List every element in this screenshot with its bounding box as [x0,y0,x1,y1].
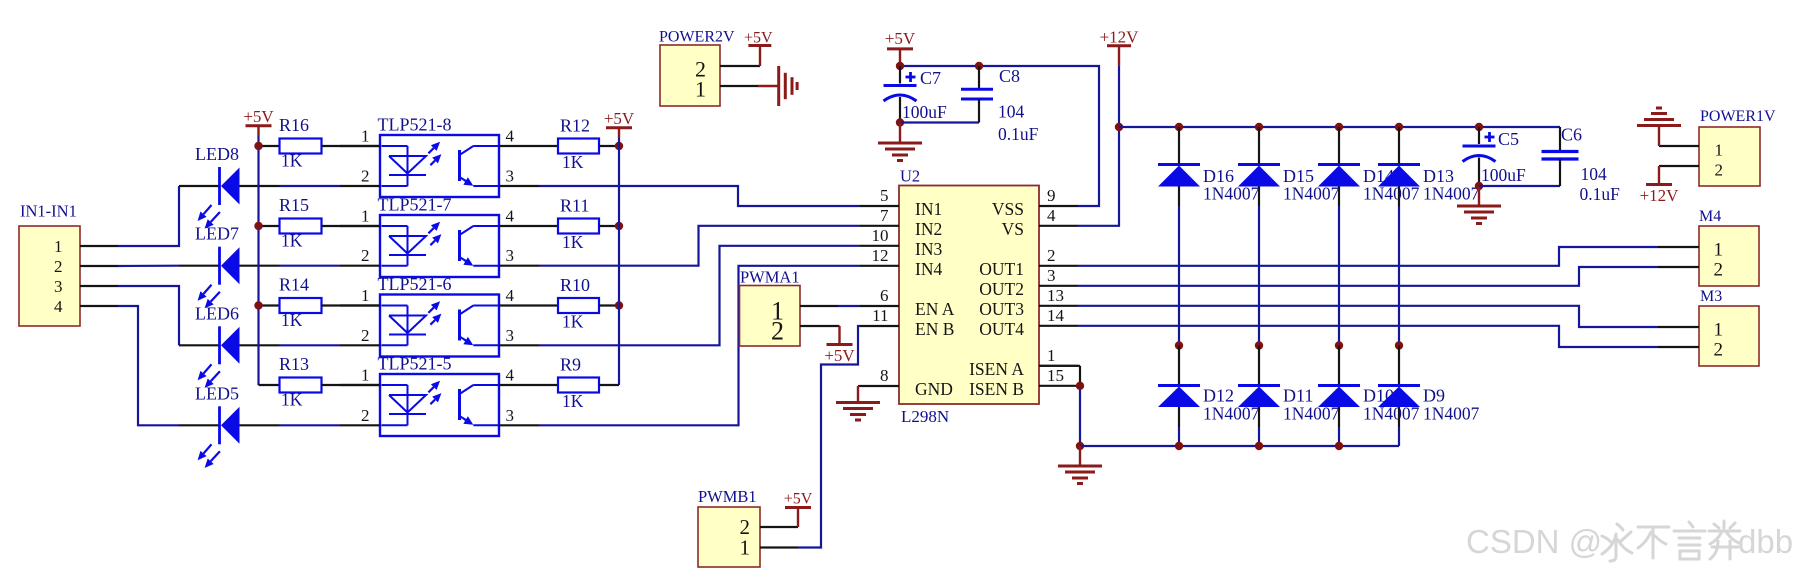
wire OUT3 to M3 pin1 [1078,306,1658,327]
svg-text:0.1uF: 0.1uF [1580,184,1621,204]
svg-text:LED6: LED6 [195,303,239,323]
power +5V rail right [604,109,635,385]
wire IN1 pin3 to LED6 [118,286,179,345]
junction +12V rail feed [1115,123,1123,131]
svg-text:IN3: IN3 [915,239,942,259]
svg-text:+5V: +5V [885,29,916,48]
svg-text:5: 5 [880,186,889,205]
PWMA1 pin 1 stub [800,305,838,307]
svg-text:1: 1 [1714,320,1724,341]
junction ISEN B [1076,382,1084,390]
svg-text:1K: 1K [562,312,584,332]
wire IN1 pin1 to LED8 [118,186,179,246]
power +5V at PWMA1 pin2 (inverted) [824,326,855,365]
svg-text:2: 2 [361,167,370,186]
connector PWMA1 [740,268,801,347]
junction column D16 [1175,341,1183,349]
pin 4 stub of IN1-IN1 [80,305,118,307]
svg-text:R10: R10 [560,275,590,295]
svg-text:2: 2 [1714,260,1724,281]
resistor R12 1K [539,116,619,173]
pin 3 stub of IN1-IN1 [80,285,118,287]
svg-text:EN A: EN A [915,299,955,319]
resistor R11 1K [539,196,619,253]
svg-text:9: 9 [1047,186,1056,205]
junction at +5V rail / R11 [615,222,623,230]
svg-text:D11: D11 [1283,386,1313,406]
wire D16 to output column [1178,206,1180,346]
U2 pin 8 GND [860,366,953,399]
svg-text:TLP521-6: TLP521-6 [378,274,452,294]
wire VSS pin9 to +5V node [900,66,1099,206]
wire ISEN A/B to ground rail [1039,366,1080,446]
diode D10 1N4007 [1318,346,1420,428]
junction C7 bottom [896,118,904,126]
svg-text:4: 4 [506,286,515,305]
junction column D14 [1335,341,1343,349]
svg-text:6: 6 [880,286,889,305]
M4 pin1 stub [1658,246,1699,248]
M3 pin2 stub [1658,346,1699,348]
svg-text:U2: U2 [900,167,920,186]
svg-text:+5V: +5V [824,346,855,365]
U2 pin 15 ISEN B [969,366,1078,399]
junction ground rail / D12 [1175,442,1183,450]
connector POWER1V [1699,108,1776,186]
svg-text:OUT3: OUT3 [979,299,1024,319]
wire U2 pin8 to ground [858,385,860,387]
power +12V top [1100,28,1140,66]
svg-text:POWER2V: POWER2V [659,29,735,46]
svg-text:12: 12 [872,246,889,265]
POWER1V pin2 stub [1659,165,1699,167]
junction C8 top [975,62,983,70]
wire IN1 signal [539,186,860,206]
wire OUT4 to M3 pin2 [1078,326,1658,347]
junction at +5V rail / R12 [615,142,623,150]
resistor R13 1K [259,354,381,410]
svg-text:R16: R16 [279,115,309,135]
LED LED6 [179,303,340,388]
wire D13 to output column [1398,206,1400,346]
pin 1 stub of IN1-IN1 [80,245,118,247]
ground at POWER1V (inverted) [1637,108,1681,146]
svg-text:LED5: LED5 [195,383,239,403]
diode D13 1N4007 [1378,127,1480,206]
svg-text:C6: C6 [1561,125,1582,145]
diode D16 1N4007 [1158,127,1260,206]
M3 pin1 stub [1658,326,1699,328]
svg-text:+5V: +5V [604,109,635,128]
U2 pin 11 EN B [860,306,954,339]
svg-text:+12V: +12V [1100,28,1140,47]
ground below C7 [878,123,922,161]
svg-text:CSDN @: CSDN @ [1466,523,1602,560]
capacitor C8 104 0.1uF [961,66,1039,144]
wire D10 to ground rail [1338,427,1340,446]
junction +12V rail / D16 [1175,123,1183,131]
svg-text:TLP521-8: TLP521-8 [378,115,452,135]
wire D15 to output column [1258,206,1260,346]
power +5V rail left [243,107,274,385]
wire D12 to ground rail [1178,427,1180,446]
junction C7 top [896,62,904,70]
wire bottom ground rail [1080,445,1399,447]
svg-text:R14: R14 [279,275,309,295]
ground at POWER2V (rotated) [758,66,797,106]
svg-text:2: 2 [361,246,370,265]
ground below C5 [1457,186,1501,224]
resistor R9 1K [539,355,619,412]
svg-text:1K: 1K [562,391,584,411]
svg-text:OUT4: OUT4 [979,319,1024,339]
svg-text:1: 1 [361,366,370,385]
wire IN3 signal [539,246,860,345]
svg-text:R15: R15 [279,195,309,215]
junction +12V rail / D13 [1395,123,1403,131]
svg-text:1K: 1K [562,152,584,172]
PWMB1 pin 2 stub [760,526,798,528]
U2 pin 5 IN1 [860,186,942,219]
svg-text:1K: 1K [281,390,303,410]
resistor R15 1K [259,195,381,251]
svg-text:2: 2 [771,317,784,346]
svg-text:10: 10 [872,226,889,245]
svg-text:M4: M4 [1699,208,1721,225]
wire OUT1 to M4 pin1 [1078,247,1658,266]
connector M4 [1699,208,1759,286]
svg-text:2: 2 [361,406,370,425]
svg-text:IN1-IN1: IN1-IN1 [20,202,77,221]
svg-text:4: 4 [1047,206,1056,225]
junction +12V rail / D14 [1335,123,1343,131]
U2 pin 12 IN4 [860,246,942,279]
junction ground rail / D10 [1335,442,1343,450]
junction at +5V rail / R16 [254,142,262,150]
junction ground rail left end [1076,442,1084,450]
junction ground rail / D11 [1255,442,1263,450]
POWER2V pin1 stub [720,85,758,87]
U2 pin 6 EN A [860,286,955,319]
svg-text:8: 8 [880,366,889,385]
capacitor C7 100uF polarized [884,66,948,123]
U2 pin 13 OUT3 [979,286,1078,319]
U2 pin 4 VS [1002,206,1078,239]
svg-text:11: 11 [872,306,888,325]
wire IN4 signal [539,266,860,426]
svg-text:PWMA1: PWMA1 [740,268,800,287]
U2 pin 1 ISEN A [969,346,1078,379]
svg-text:15: 15 [1047,366,1064,385]
svg-text:R12: R12 [560,116,590,136]
power +5V at POWER2V [744,29,773,66]
svg-text:2: 2 [1047,246,1056,265]
svg-text:1: 1 [361,207,370,226]
svg-text:4: 4 [506,366,515,385]
IC U2 L298N [899,186,1039,405]
svg-text:ISEN A: ISEN A [969,359,1024,379]
POWER2V pin2 stub [720,65,760,67]
svg-text:3: 3 [506,326,515,345]
svg-text:3: 3 [506,246,515,265]
U2 pin 9 VSS [992,186,1078,219]
svg-text:4: 4 [506,127,515,146]
wire C5 bottom to C6 bottom [1479,185,1560,187]
svg-text:+5V: +5V [744,29,773,46]
connector PWMB1 [698,487,760,567]
svg-text:IN2: IN2 [915,219,942,239]
junction column D15 [1255,341,1263,349]
resistor R14 1K [259,275,381,331]
svg-text:IN4: IN4 [915,259,942,279]
svg-text:14: 14 [1047,306,1065,325]
svg-text:4: 4 [506,207,515,226]
svg-text:TLP521-5: TLP521-5 [378,354,452,374]
svg-text:4: 4 [54,297,63,316]
svg-text:EN B: EN B [915,319,954,339]
wire PWMA1 pin1 to EN A [838,305,860,307]
connector M3 [1699,288,1759,366]
watermark chinese glyphs [1602,521,1740,561]
wire C7 bottom to C8 bottom [900,121,979,123]
power +5V at PWMB1 pin2 [784,491,813,528]
svg-text:C7: C7 [920,68,941,88]
svg-text:LED7: LED7 [195,224,239,244]
svg-text:GND: GND [915,379,953,399]
svg-text:PWMB1: PWMB1 [698,487,757,506]
svg-text:VSS: VSS [992,199,1024,219]
svg-text:R11: R11 [560,196,589,216]
svg-text:1K: 1K [562,232,584,252]
svg-text:OUT2: OUT2 [979,279,1024,299]
svg-text:C8: C8 [999,66,1020,86]
svg-text:100uF: 100uF [1481,165,1526,185]
svg-text:+12V: +12V [1640,186,1680,205]
optocoupler U TLP521-8 [340,115,539,198]
LED LED8 [179,144,340,229]
U2 pin 7 IN2 [860,206,942,239]
wire IN1 pin2 to LED7 [118,265,179,267]
svg-text:0.1uF: 0.1uF [998,124,1039,144]
wire D9 to ground rail [1398,427,1400,446]
svg-text:2: 2 [1714,340,1724,361]
diode D14 1N4007 [1318,127,1420,206]
svg-text:3: 3 [54,277,63,296]
svg-text:1: 1 [1047,346,1056,365]
diode D11 1N4007 [1238,346,1340,428]
ground at ISEN [1058,446,1102,484]
svg-text:+5V: +5V [243,107,274,126]
wire IN1 pin4 to LED5 [118,306,179,425]
svg-text:2: 2 [54,257,63,276]
wire EN B from PWMB1 pin1 to U2 pin11 [798,326,860,548]
LED LED5 [179,383,340,468]
svg-text:R9: R9 [560,355,581,375]
svg-text:1N4007: 1N4007 [1423,184,1480,204]
svg-text:TLP521-7: TLP521-7 [378,195,452,215]
wire D11 to ground rail [1258,427,1260,446]
svg-text:POWER1V: POWER1V [1700,108,1776,125]
svg-text:1: 1 [1715,140,1724,159]
svg-text:dbb: dbb [1738,523,1793,560]
svg-text:7: 7 [880,206,889,225]
junction +12V rail / C5 [1475,123,1483,131]
resistor R10 1K [539,275,619,332]
svg-text:1K: 1K [281,310,303,330]
svg-text:M3: M3 [1700,288,1722,305]
connector IN1-IN1 [19,226,80,326]
svg-text:1: 1 [361,127,370,146]
svg-text:1: 1 [361,286,370,305]
POWER1V pin1 stub [1659,145,1699,147]
pin 2 stub of IN1-IN1 [80,265,118,267]
wire D14 to output column [1338,206,1340,346]
junction at +5V rail / R14 [254,301,262,309]
junction +12V rail / D15 [1255,123,1263,131]
U2 pin 10 IN3 [860,226,942,259]
svg-text:C5: C5 [1498,129,1519,149]
svg-text:13: 13 [1047,286,1064,305]
svg-text:1: 1 [695,77,706,102]
svg-text:1: 1 [740,536,751,560]
wire +12V rail [1119,126,1560,128]
junction at +5V rail / R15 [254,222,262,230]
svg-text:3: 3 [506,406,515,425]
svg-text:2: 2 [1715,160,1724,179]
svg-text:D9: D9 [1423,386,1445,406]
U2 pin 3 OUT2 [979,266,1078,299]
svg-text:L298N: L298N [901,407,949,426]
wire OUT2 to M4 pin2 [1078,267,1658,286]
diode D15 1N4007 [1238,127,1340,206]
svg-text:1: 1 [1714,240,1724,261]
diode D12 1N4007 [1158,346,1260,428]
diode D9 1N4007 [1378,346,1480,428]
svg-text:3: 3 [506,167,515,186]
resistor R16 1K [259,115,381,171]
U2 pin 14 OUT4 [979,306,1078,339]
power +12V at POWER1V [1640,166,1680,205]
svg-text:R13: R13 [279,354,309,374]
svg-text:1N4007: 1N4007 [1423,404,1480,424]
wire IN2 signal [539,226,860,266]
svg-text:1: 1 [54,237,63,256]
PWMA1 pin 2 stub [800,325,840,327]
svg-text:1K: 1K [281,231,303,251]
svg-text:IN1: IN1 [915,199,942,219]
svg-text:2: 2 [361,326,370,345]
svg-text:VS: VS [1002,219,1024,239]
PWMB1 pin 1 stub [760,546,798,548]
svg-text:3: 3 [1047,266,1056,285]
svg-text:104: 104 [998,102,1025,122]
svg-text:100uF: 100uF [902,102,947,122]
M4 pin2 stub [1658,266,1699,268]
optocoupler U TLP521-6 [340,274,539,357]
ground at U2 pin 8 [836,386,880,420]
junction C5 bottom [1475,182,1483,190]
capacitor C6 104 0.1uF [1542,125,1621,205]
U2 pin 2 OUT1 [979,246,1078,279]
optocoupler U TLP521-5 [340,354,539,437]
svg-text:104: 104 [1581,164,1608,184]
svg-text:D12: D12 [1203,386,1234,406]
connector POWER2V [659,29,735,107]
svg-text:OUT1: OUT1 [979,259,1024,279]
LED LED7 [179,224,340,309]
junction column D13 [1395,341,1403,349]
svg-text:LED8: LED8 [195,144,239,164]
svg-text:ISEN B: ISEN B [969,379,1024,399]
capacitor C5 100uF polarized [1463,127,1527,186]
svg-text:+5V: +5V [784,491,813,508]
optocoupler U TLP521-7 [340,195,539,278]
junction at +5V rail / R10 [615,301,623,309]
power +5V at C7 [885,29,916,66]
wire +12V to VS pin4 [1078,66,1119,226]
svg-text:1K: 1K [281,151,303,171]
